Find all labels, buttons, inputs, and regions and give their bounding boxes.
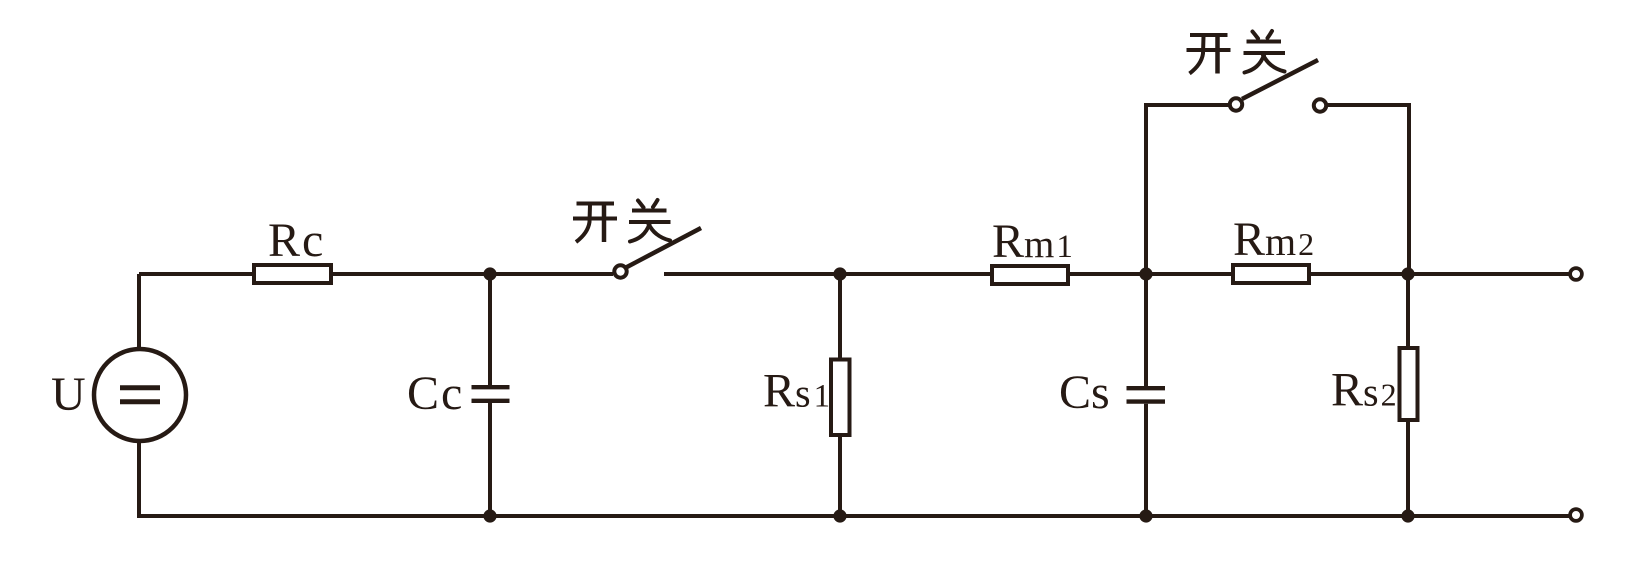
output terminal bottom — [1570, 509, 1582, 521]
switch S2 pivot — [1230, 98, 1242, 110]
node: junction Rs1 top — [833, 267, 846, 280]
wire Rc to switch — [331, 272, 613, 276]
resistor Rs1 bottom lead — [838, 435, 842, 516]
resistor Rs2 bottom lead — [1406, 420, 1410, 516]
node: junction Cs bottom — [1139, 509, 1152, 522]
resistor Rs2 body — [1400, 348, 1418, 420]
wire Rm2 to output — [1309, 272, 1570, 276]
resistor Rm1 — [992, 266, 1068, 284]
capacitor Cs top lead — [1144, 274, 1148, 386]
capacitor Cc plates — [472, 385, 510, 389]
node: junction Rs1 bottom — [833, 509, 846, 522]
switch S1 pivot — [614, 265, 626, 277]
capacitor Cs bottom lead — [1144, 404, 1148, 516]
resistor Rs2 top lead — [1406, 274, 1410, 348]
wire bottom rail — [137, 514, 1570, 518]
switch S2 loop top-right horizontal — [1326, 103, 1409, 107]
node: junction Rs2 bottom — [1401, 509, 1414, 522]
svg-text:Rc: Rc — [268, 214, 325, 267]
switch S2 lever — [1242, 60, 1318, 99]
source = bars — [120, 385, 160, 390]
switch S1 lever — [626, 228, 701, 268]
wire Rm1 to Rm2 — [1068, 272, 1233, 276]
node: junction Cc top — [483, 267, 496, 280]
wire source bottom lead — [137, 442, 141, 518]
switch S2 loop top-left horizontal — [1144, 103, 1230, 107]
switch S2 loop right vertical — [1407, 103, 1411, 274]
capacitor Cc bottom lead — [488, 403, 492, 516]
resistor Rs1 body — [831, 360, 850, 436]
label kai-guan switch 2 — [1187, 35, 1231, 74]
node: junction Cs top — [1139, 267, 1152, 280]
output terminal top — [1570, 268, 1582, 280]
resistor Rc — [254, 265, 331, 283]
source U circle — [94, 349, 186, 441]
svg-text:Cc: Cc — [407, 367, 464, 420]
wire switch to Rm1 — [664, 272, 992, 276]
capacitor Cs plates — [1127, 386, 1166, 390]
resistor Rs1 top lead — [838, 274, 842, 359]
wire source top lead — [137, 274, 141, 348]
wire top: source to Rc — [139, 272, 254, 276]
switch S2 loop left vertical — [1144, 103, 1148, 274]
resistor Rm2 — [1233, 265, 1309, 283]
node: junction Rs2 top — [1401, 267, 1414, 280]
capacitor Cc top lead — [488, 274, 492, 385]
label kai-guan switch 1 — [573, 204, 617, 243]
node: junction Cc bottom — [483, 509, 496, 522]
svg-text:U: U — [51, 368, 86, 421]
svg-text:Cs: Cs — [1059, 366, 1110, 419]
switch S2 contact — [1314, 99, 1326, 111]
